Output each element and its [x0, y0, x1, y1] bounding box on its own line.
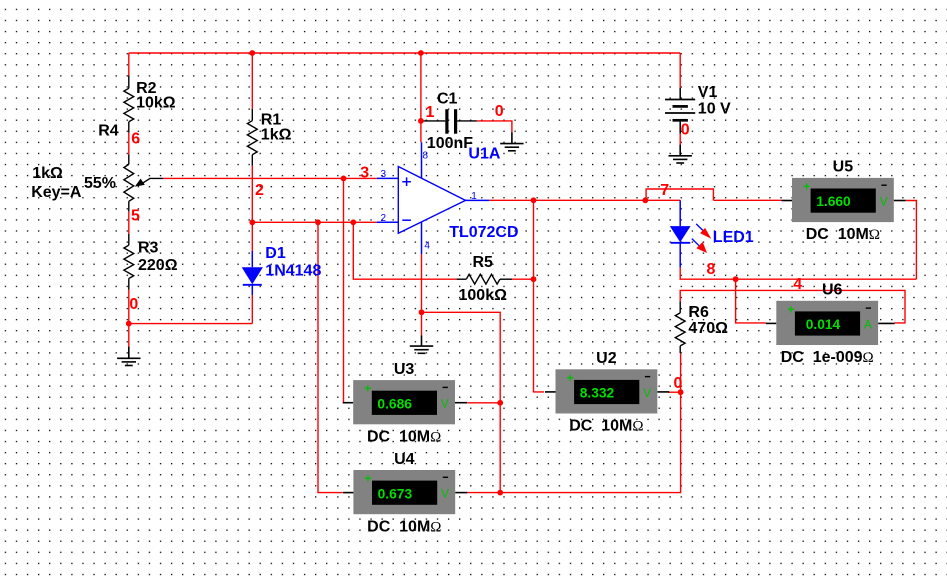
wire node 0 to U3 minus	[467, 402, 500, 404]
wire top rail to R1	[251, 53, 253, 109]
svg-text:U5: U5	[833, 159, 854, 176]
wire left rail to R2	[128, 53, 130, 76]
svg-text:1: 1	[471, 191, 477, 202]
ground op-amp pin 4	[410, 335, 433, 353]
wire R5 left stub	[457, 278, 467, 280]
svg-text:1kΩ: 1kΩ	[32, 165, 63, 182]
wire R1 top stub	[251, 109, 253, 121]
wire node 5 R4 to R3	[128, 211, 130, 234]
resistor R2	[124, 88, 134, 121]
wire node 0 to U4 minus	[466, 492, 500, 494]
wire R4 bottom stub	[128, 201, 130, 211]
svg-text:2: 2	[381, 213, 387, 224]
wire node 7 hop-over jog	[646, 189, 713, 200]
junction node 7 LED tap	[642, 197, 648, 203]
svg-text:+: +	[364, 382, 371, 396]
wire node 0 to R6 bottom	[500, 353, 680, 493]
wire node 8 up to U5 minus	[906, 201, 916, 280]
svg-text:V: V	[880, 195, 888, 209]
wire node 8 LED1 cathode rail	[680, 267, 916, 279]
svg-text:D1: D1	[265, 245, 286, 262]
wire node 6 R2 to R4	[128, 133, 130, 155]
svg-text:V: V	[441, 487, 449, 501]
multimeter U3	[343, 380, 467, 424]
svg-text:55%: 55%	[84, 175, 116, 192]
junction R5 right	[531, 276, 537, 282]
multimeter U5	[782, 178, 906, 222]
junction node 2 R1 D1	[249, 219, 255, 225]
svg-text:U1A: U1A	[468, 146, 500, 163]
svg-text:3: 3	[381, 169, 387, 180]
svg-text:LED1: LED1	[713, 229, 754, 246]
wire op-amp pin 4 to ground net	[421, 254, 423, 312]
svg-text:U6: U6	[822, 282, 843, 299]
wire R4 top stub	[128, 154, 130, 164]
svg-text:100kΩ: 100kΩ	[459, 287, 508, 304]
capacitor C1	[447, 109, 456, 134]
svg-text:7: 7	[660, 182, 669, 199]
svg-text:1kΩ: 1kΩ	[261, 127, 292, 144]
wire node 0 to U2 minus	[668, 391, 681, 393]
junction top rail R1	[249, 50, 255, 56]
multimeter U6	[766, 301, 895, 345]
svg-text:8: 8	[423, 151, 429, 162]
wire node 2 R1 to bus	[251, 166, 253, 223]
svg-text:+: +	[567, 371, 574, 385]
svg-text:TL072CD: TL072CD	[449, 224, 518, 241]
diode D1	[242, 251, 263, 295]
svg-text:10kΩ: 10kΩ	[136, 95, 176, 112]
wire node 2 to D1 cathode	[251, 222, 253, 251]
potentiometer R4 body	[124, 164, 134, 201]
junction node 0 ground	[419, 309, 425, 315]
wire node 4 U6 minus to R6 top	[680, 290, 905, 323]
svg-text:DC 10MΩ: DC 10MΩ	[806, 226, 880, 243]
svg-text:V: V	[441, 397, 449, 411]
wire node 2 to op-amp pin 2	[252, 221, 376, 223]
svg-text:8: 8	[707, 261, 716, 278]
svg-text:0.686: 0.686	[377, 396, 412, 411]
svg-text:0: 0	[681, 121, 690, 138]
resistor R6	[675, 313, 685, 346]
svg-text:1.660: 1.660	[816, 194, 851, 209]
svg-text:10 V: 10 V	[698, 100, 731, 117]
battery V1	[665, 88, 695, 134]
wire V1 positive drop	[679, 53, 681, 88]
svg-text:3: 3	[360, 164, 369, 181]
wire R2 bottom stub	[128, 122, 130, 133]
svg-text:R4: R4	[98, 122, 119, 139]
LED LED1	[670, 200, 691, 267]
svg-text:0: 0	[495, 103, 504, 120]
wire R6 bottom stub	[679, 346, 681, 353]
wire node 0 to ground stub	[421, 312, 423, 335]
svg-text:5: 5	[131, 208, 140, 225]
svg-text:100nF: 100nF	[427, 135, 473, 152]
svg-text:4: 4	[424, 241, 430, 252]
resistor R1	[247, 121, 257, 155]
wire R5 right stub	[500, 278, 512, 280]
ground node 0 left	[117, 347, 140, 366]
wire node 7 to U5 plus	[713, 199, 781, 201]
svg-text:4: 4	[793, 276, 802, 293]
wire C1 right lead	[457, 120, 477, 122]
wire node 0 vertical to meters	[422, 312, 501, 492]
svg-text:DC 10MΩ: DC 10MΩ	[569, 418, 643, 435]
svg-text:R6: R6	[688, 304, 709, 321]
svg-text:DC 1e-009Ω: DC 1e-009Ω	[781, 349, 874, 366]
wire node 0 to D1 anode	[129, 323, 253, 325]
svg-text:V: V	[643, 386, 651, 400]
svg-text:A: A	[864, 317, 872, 331]
svg-text:C1: C1	[437, 91, 458, 108]
junction node 0 left	[126, 321, 132, 327]
svg-text:0.014: 0.014	[806, 317, 841, 332]
wire C1 right to ground node 0	[477, 121, 512, 132]
ground C1	[500, 132, 523, 151]
potentiometer R4 wiper arrow	[143, 178, 164, 183]
multimeter U2	[545, 369, 669, 413]
svg-text:DC 10MΩ: DC 10MΩ	[367, 518, 441, 535]
svg-text:6: 6	[131, 131, 140, 148]
ground V1	[669, 145, 692, 163]
svg-text:+: +	[787, 302, 794, 316]
wire R1 bottom stub	[251, 155, 253, 166]
potentiometer R4	[124, 154, 163, 211]
wire R2 top stub	[128, 76, 130, 89]
svg-text:V1: V1	[698, 84, 718, 101]
junction node 2 U4 tap	[315, 219, 321, 225]
svg-text:0: 0	[674, 375, 683, 392]
wire R3 bottom stub	[128, 279, 130, 290]
svg-text:Key=A: Key=A	[31, 184, 82, 201]
wire node 3 tap to U3 plus	[342, 178, 345, 402]
svg-text:U4: U4	[394, 451, 415, 468]
svg-text:U3: U3	[394, 361, 415, 378]
LED1 emission arrows	[692, 224, 711, 253]
svg-text:R3: R3	[138, 240, 159, 257]
wire V1 ground stub	[679, 145, 681, 156]
junction node 0 U2 minus	[678, 389, 684, 395]
svg-text:DC 10MΩ: DC 10MΩ	[367, 428, 441, 445]
junction node 3 U3 tap	[341, 176, 347, 182]
multimeter U4	[343, 470, 467, 514]
wire R6 top stub	[679, 302, 681, 313]
wire node 3 wiper to op-amp pin 3	[163, 177, 376, 179]
wire node 7 tap to U2 plus	[534, 200, 545, 392]
wire op-amp output node 7	[489, 199, 646, 201]
wire node 2 tap to U4 plus	[318, 222, 343, 492]
svg-text:+: +	[803, 180, 810, 194]
svg-text:8.332: 8.332	[580, 386, 615, 401]
wire V1 negative to ground	[679, 134, 681, 145]
svg-text:1N4148: 1N4148	[265, 262, 321, 279]
wire D1 anode lead	[251, 295, 253, 324]
junction node 2 R5 tap	[350, 219, 356, 225]
svg-text:2: 2	[255, 182, 264, 199]
junction node 8 U6 tap	[733, 276, 739, 282]
resistor R3	[124, 245, 134, 278]
wire supply to pin 8 and C1	[420, 53, 422, 142]
svg-text:0: 0	[129, 296, 138, 313]
wire node 7 to LED1 anode	[645, 199, 680, 201]
svg-text:+: +	[364, 472, 371, 486]
svg-text:470Ω: 470Ω	[688, 320, 728, 337]
op-amp U1A TL072CD	[377, 142, 490, 254]
wire node 8 to U6 plus	[736, 279, 766, 323]
wire node 2 to R5 left	[353, 222, 456, 279]
svg-text:U2: U2	[596, 350, 617, 367]
junction top rail supply	[418, 50, 424, 56]
junction C1 node 1	[418, 118, 424, 124]
wire node 0 below R3	[128, 290, 130, 347]
junction node 7 U2 tap	[531, 197, 537, 203]
wire top rail node 1	[129, 52, 680, 54]
svg-text:1: 1	[426, 104, 435, 121]
svg-text:R5: R5	[473, 254, 494, 271]
svg-text:220Ω: 220Ω	[138, 257, 178, 274]
svg-text:0.673: 0.673	[378, 486, 413, 501]
resistor R5	[466, 274, 500, 284]
wire R3 top stub	[128, 234, 130, 245]
junction node 0 U4 minus	[497, 490, 503, 496]
junction node 0 U3 minus	[497, 400, 503, 406]
wire R5 right to output net	[512, 278, 533, 280]
wire C1 left lead	[422, 120, 445, 122]
